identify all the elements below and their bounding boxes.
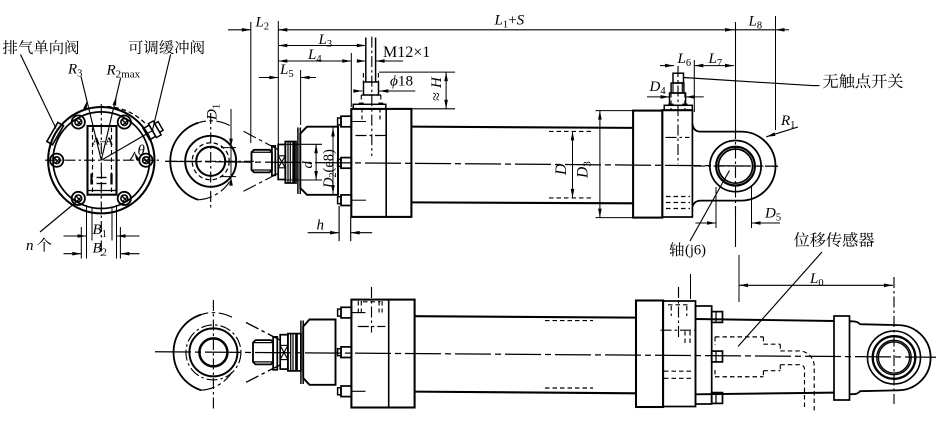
end view bolt 2: [118, 115, 131, 128]
L2 dimension: [228, 29, 251, 31]
bottom front plate: [351, 300, 414, 408]
bottom rod eye swing circle: [186, 325, 241, 380]
rear eye outline: [692, 124, 775, 207]
end view bolt 1: [139, 154, 152, 167]
front tie-rod nut 3: [341, 195, 351, 206]
bottom bore hidden lines: [545, 320, 593, 322]
sensor mount bolt 1: [712, 312, 723, 323]
bottom rear port hidden: [670, 306, 672, 316]
bottom view axis centerline: [155, 352, 936, 357]
bottom gland seal plate: [300, 321, 302, 385]
svg-text:(j6): (j6): [685, 243, 706, 259]
rear port cross: [666, 136, 690, 138]
svg-text:H: H: [429, 76, 445, 89]
end view bolt 3: [72, 115, 85, 128]
zhou j6 leader: [690, 171, 730, 242]
svg-text:D2(e8): D2(e8): [321, 149, 339, 189]
sensor body hidden: [715, 336, 763, 338]
L8 extension line: [775, 16, 777, 130]
rod eye ring: [185, 136, 236, 187]
L6 extension line: [693, 60, 695, 112]
B1 dimension: [64, 235, 87, 237]
bottom rear eye circles: [868, 331, 921, 384]
bottom wiper collar: [288, 334, 301, 371]
front port stem M12: [365, 38, 367, 83]
svg-text:n: n: [26, 238, 34, 254]
D3 dimension line: [599, 111, 601, 218]
switch hidden thread: [670, 93, 672, 110]
L8 dimension: [734, 29, 776, 31]
svg-text:≈: ≈: [429, 92, 446, 101]
rod wiper collar: [285, 142, 296, 184]
bottom tie-rod nut 2: [341, 347, 351, 358]
D5 extension lines: [715, 187, 717, 228]
rod eye outer solid arc: [170, 123, 198, 200]
rod eye horizontal centerline: [166, 160, 254, 162]
bottom rod end cap: [273, 337, 277, 370]
R2max leader: [101, 78, 120, 160]
switch knob: [673, 73, 684, 83]
L3 dimension: [278, 45, 366, 47]
phi18 dimension: [354, 90, 362, 92]
L4 extension line: [350, 53, 352, 107]
exhaust check valve tab: [47, 122, 64, 144]
d extension lines: [286, 143, 322, 145]
svg-text:M12×1: M12×1: [383, 44, 430, 61]
rod eye phantom arc: [198, 121, 230, 126]
bottom rear hidden passage: [684, 331, 686, 345]
L2 extension line: [250, 22, 252, 143]
rod break X strip: [278, 145, 285, 180]
svg-text:ϕ18: ϕ18: [390, 73, 413, 90]
L5 extension line: [300, 70, 302, 125]
front bolt axis ticks: [351, 121, 366, 123]
zhou j6 label: [670, 242, 684, 256]
rod eye ball hidden circle: [192, 143, 229, 180]
L5 dimension: [259, 77, 278, 79]
end view bolt 6: [118, 192, 131, 205]
bottom rod eye outer arc: [174, 315, 202, 391]
front head plate: [351, 109, 411, 217]
front port boss: [353, 104, 386, 109]
sensor extension tube top: [696, 319, 835, 321]
sensor mount bolt 3: [712, 393, 723, 404]
switch mid body: [671, 83, 684, 93]
rear eye horizontal centerline: [694, 165, 778, 167]
front port flange: [364, 82, 379, 95]
end view slot lower detail: [90, 174, 92, 185]
rod eye taper phantom upper: [244, 131, 279, 150]
adjustable cushion valve fitting: [142, 119, 164, 141]
theta angle arrow: [135, 153, 140, 161]
sensor cable elbow hidden: [780, 351, 814, 412]
rod eye bore: [196, 147, 225, 176]
bottom eye taper upper: [246, 323, 282, 341]
bottom tube bottom line: [415, 392, 636, 394]
end view bolt 5: [72, 192, 85, 205]
bottom front port cross: [358, 326, 386, 328]
n-ge leader: [40, 200, 79, 232]
theta angle line: [101, 130, 153, 160]
sensor tube collar: [834, 316, 850, 400]
rear head plate: [633, 111, 662, 218]
rear eye vertical centerline: [735, 22, 737, 128]
top view main axis centerline: [165, 161, 778, 166]
piston rod thread: [252, 150, 272, 173]
bottom rear plate: [636, 301, 663, 408]
end view slot inner hidden lines: [92, 128, 94, 195]
rear eye ring: [710, 141, 761, 192]
bottom tube top line: [415, 316, 636, 317]
bottom gland block: [303, 320, 335, 385]
contactless switch leader: [684, 78, 813, 86]
L7 dimension: [694, 65, 734, 67]
D dimension line: [572, 131, 574, 198]
ketiao leader: [153, 55, 171, 131]
gland seal plate: [297, 128, 299, 195]
svg-text:θ: θ: [138, 143, 146, 159]
gland block: [300, 127, 338, 195]
label ketiao huanchongfa: [129, 40, 143, 54]
bottom rear eye outline: [850, 321, 931, 394]
B1 extension lines: [86, 205, 88, 259]
bottom rod eye ring: [189, 328, 237, 376]
svg-text:D: D: [553, 164, 570, 176]
sensor step hidden: [763, 343, 780, 345]
bottom rear port centerline: [678, 287, 680, 338]
svg-text:L1+S: L1+S: [494, 13, 525, 31]
front port centerline: [371, 37, 373, 156]
L0 dimension: [739, 284, 893, 286]
bottom rear block: [663, 301, 695, 407]
bottom rear eye vertical centerline: [893, 277, 895, 404]
B2 dimension: [64, 253, 82, 255]
sensor leader: [738, 252, 822, 347]
rear block hidden passage: [666, 196, 690, 198]
bottom front plate divider: [388, 300, 390, 408]
D1 extension ticks: [221, 147, 236, 149]
stray extension line: [690, 274, 692, 299]
D2 dimension line: [332, 127, 334, 195]
bottom sensor plate: [696, 306, 712, 404]
end view central slot: [88, 126, 117, 195]
end view vertical centerline: [100, 104, 102, 256]
bottom bolt axis ticks: [351, 312, 365, 314]
front head plate divider: [385, 109, 387, 217]
D bore hidden extension: [549, 130, 592, 132]
bottom rod eye bore: [199, 338, 227, 366]
bottom eye vertical centerline: [212, 300, 214, 411]
rod end cap: [272, 146, 275, 175]
rod eye vertical centerline: [210, 113, 212, 208]
B2 extension lines: [80, 227, 82, 259]
front port lower hidden: [360, 95, 362, 104]
D1 dimension line: [230, 109, 232, 177]
rear eye bushing: [716, 147, 755, 186]
L2/L5 shared extension line: [277, 21, 279, 148]
sensor mount bolt 2: [712, 351, 723, 362]
rear port boss: [664, 105, 692, 110]
contactless switch label: [823, 74, 838, 89]
svg-text:h: h: [317, 218, 325, 234]
D4 dimension: [647, 96, 670, 98]
front port cross: [356, 135, 386, 137]
front port upper hidden: [362, 73, 364, 82]
bottom rod thread: [253, 340, 273, 364]
bottom tie-rod nut 3: [341, 386, 351, 397]
front tie-rod nut 1: [341, 116, 351, 127]
L1+S dimension line: [278, 29, 734, 31]
switch lower body: [670, 93, 686, 105]
bottom rear port cross: [661, 329, 696, 331]
L4 dimension: [278, 60, 351, 62]
paiqi leader: [21, 55, 57, 129]
L0 left extension: [738, 255, 740, 302]
end view bolt 4: [50, 154, 63, 167]
bottom eye taper lower: [246, 364, 282, 382]
sensor label: [794, 232, 809, 247]
end view outer flange circle: [48, 107, 154, 213]
H dimension line: [445, 72, 447, 109]
label paiqi danxiangfa: [3, 40, 17, 54]
switch centerline: [677, 66, 679, 164]
bottom front port centerline: [371, 287, 373, 333]
rear head block: [662, 110, 692, 217]
bottom tie-rod nut 1: [341, 307, 351, 318]
end view horizontal centerline: [45, 159, 160, 161]
D3 extension lines: [596, 110, 635, 112]
cylinder tube bottom line: [411, 201, 633, 204]
R3 leader: [81, 77, 101, 161]
H extension lines: [379, 71, 455, 73]
end view inner circle: [53, 112, 150, 209]
R2max phantom arc: [92, 106, 147, 124]
h extension lines: [338, 206, 340, 241]
bottom front port hidden: [357, 301, 359, 313]
h dimension: [308, 232, 339, 234]
svg-text:d: d: [300, 161, 316, 169]
R1 leader: [766, 127, 798, 137]
bottom rod break X strip: [280, 335, 288, 369]
D5 dimension: [696, 222, 717, 224]
cylinder tube top line: [411, 127, 633, 128]
front tie-rod nut 2: [341, 158, 351, 169]
L6 dimension: [660, 65, 674, 67]
M12x1 dimension: [357, 60, 366, 62]
bottom rod eye phantom arc: [201, 313, 232, 318]
d dimension line: [315, 144, 317, 180]
rod eye taper phantom lower: [244, 173, 279, 191]
sensor extension tube bottom: [696, 393, 835, 395]
